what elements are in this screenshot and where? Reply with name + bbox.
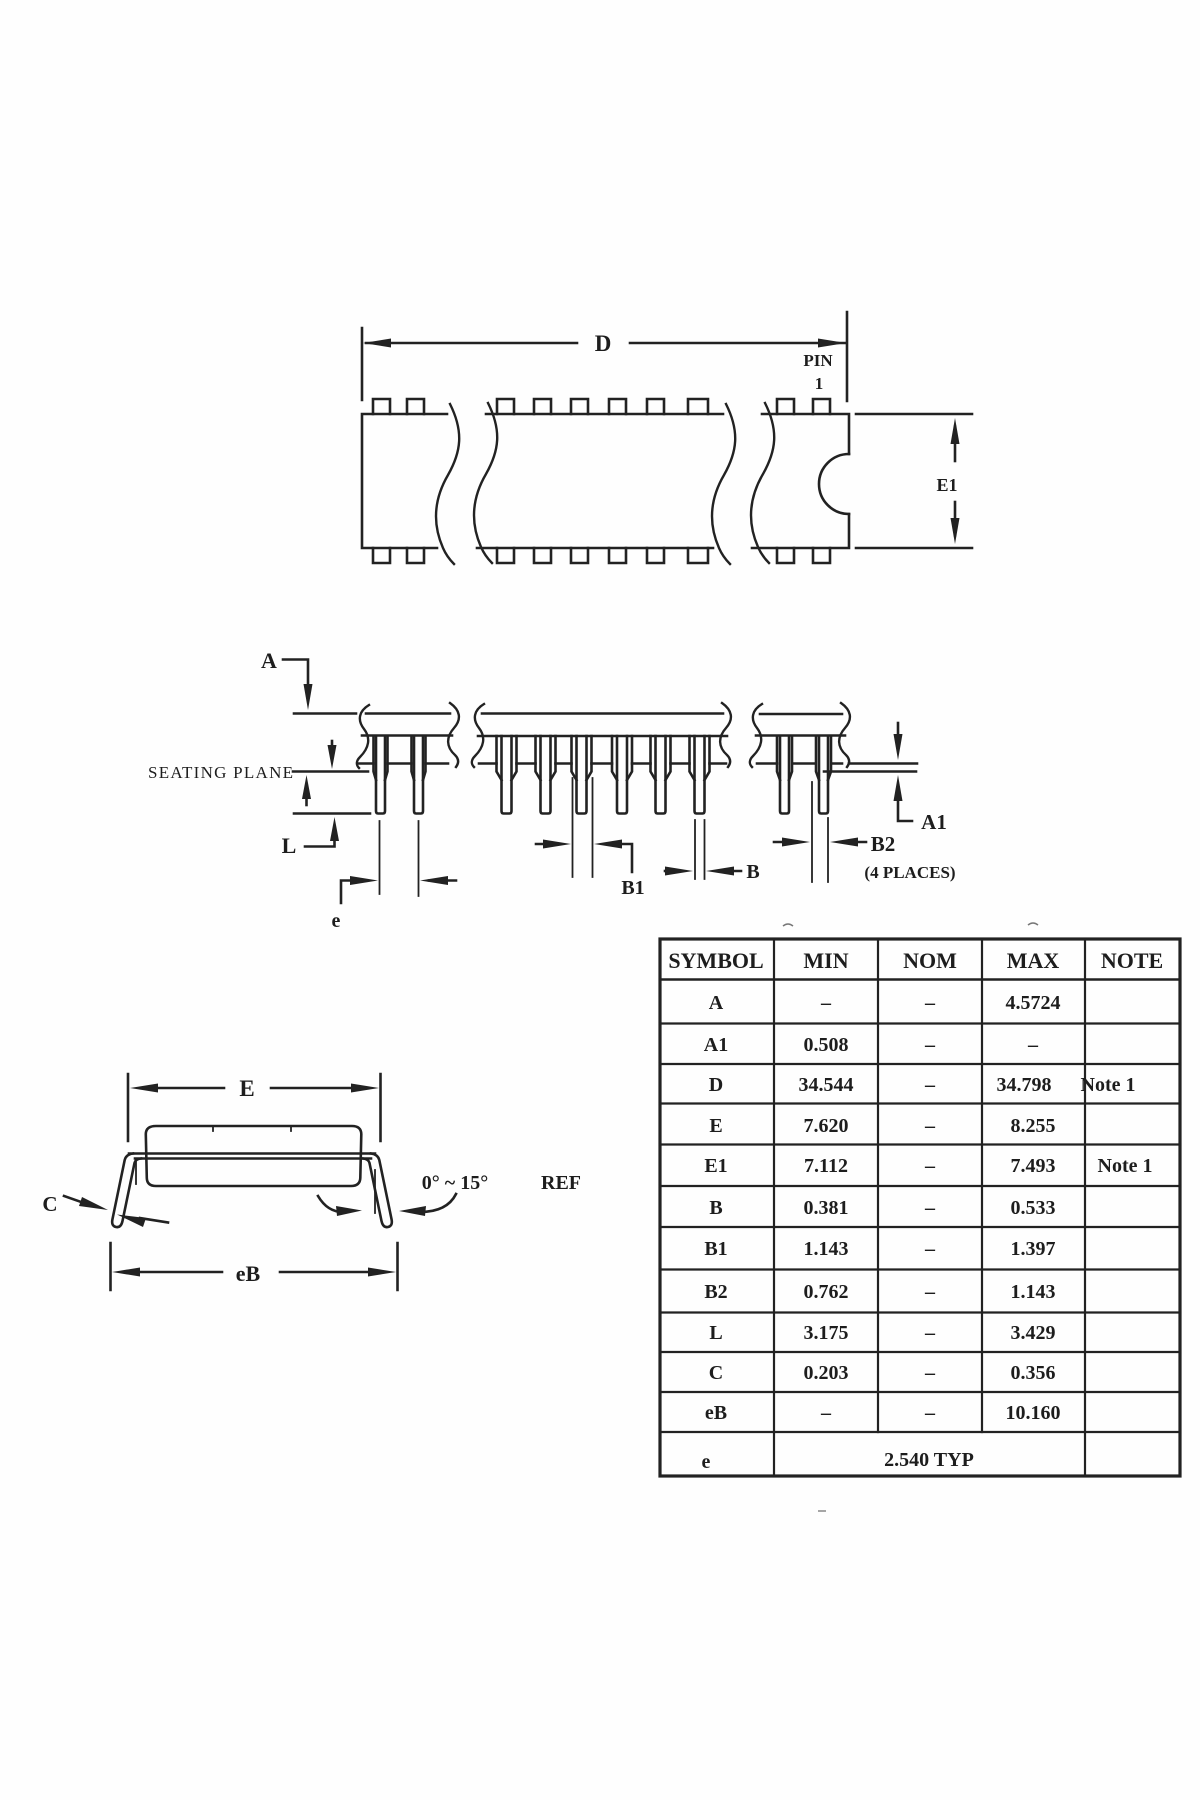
table row B [709, 1197, 1055, 1219]
table row E [709, 1115, 1055, 1137]
svg-text:B: B [746, 861, 759, 883]
svg-text:0.508: 0.508 [804, 1034, 849, 1056]
svg-text:–: – [924, 1074, 936, 1096]
table row A1 [704, 1034, 1039, 1056]
svg-text:1: 1 [815, 374, 824, 393]
end view right lead vertical reference [374, 1170, 376, 1213]
seating plane down arrow [328, 741, 337, 769]
table row D [709, 1074, 1136, 1096]
table row e [702, 1449, 974, 1473]
svg-text:E1: E1 [936, 475, 957, 495]
stray scan marks above table [783, 923, 1038, 926]
svg-text:–: – [924, 1034, 936, 1056]
top view lower pin stubs [373, 548, 830, 563]
table outer border [660, 939, 1180, 1476]
svg-text:0.381: 0.381 [804, 1197, 849, 1219]
svg-text:–: – [924, 1402, 936, 1424]
dimension D extension lines [362, 312, 847, 401]
svg-text:eB: eB [236, 1261, 261, 1286]
side view left segment body [357, 703, 459, 768]
svg-text:–: – [924, 1155, 936, 1177]
seating plane up arrow [302, 775, 311, 805]
table column lines [774, 939, 1085, 1476]
svg-text:–: – [924, 1362, 936, 1384]
end view left lead vertical reference [135, 1160, 137, 1184]
svg-text:B2: B2 [704, 1281, 727, 1303]
table row B2 [704, 1281, 1055, 1303]
table row C [709, 1362, 1056, 1384]
svg-text:0.203: 0.203 [804, 1362, 849, 1384]
table row B1 [704, 1238, 1055, 1260]
svg-text:7.112: 7.112 [804, 1155, 848, 1177]
svg-text:NOM: NOM [903, 948, 957, 973]
table row L [709, 1322, 1055, 1344]
svg-text:Note 1: Note 1 [1081, 1074, 1136, 1096]
top view package body outline [362, 414, 849, 548]
svg-text:1.143: 1.143 [804, 1238, 849, 1260]
svg-text:34.798: 34.798 [997, 1074, 1052, 1096]
svg-text:34.544: 34.544 [799, 1074, 854, 1096]
svg-text:L: L [709, 1322, 722, 1344]
svg-text:B2: B2 [871, 832, 896, 856]
svg-text:–: – [924, 992, 936, 1014]
svg-text:D: D [709, 1074, 723, 1096]
dimension B1 arrows and leader [536, 840, 632, 873]
svg-text:eB: eB [705, 1402, 727, 1424]
table row E1 [704, 1155, 1152, 1177]
dimension E1 extension lines [856, 414, 972, 548]
pin 1 index notch [819, 454, 849, 514]
svg-text:(4 PLACES): (4 PLACES) [864, 863, 955, 882]
dimension E extension lines [128, 1074, 381, 1141]
dimension D line with arrows [363, 339, 846, 348]
dimension E line with arrows [130, 1084, 379, 1093]
svg-text:e: e [332, 910, 341, 932]
svg-text:–: – [924, 1115, 936, 1137]
dimension E1 arrows [951, 418, 960, 544]
svg-text:MIN: MIN [803, 948, 848, 973]
side view middle segment pins 1-6 [497, 736, 710, 814]
svg-text:0.356: 0.356 [1011, 1362, 1056, 1384]
svg-text:0.533: 0.533 [1011, 1197, 1056, 1219]
seating plane line [293, 770, 368, 773]
top view break lines (left pair) [436, 403, 497, 564]
svg-text:e: e [702, 1451, 711, 1473]
end view top tick marks [213, 1126, 291, 1131]
svg-text:8.255: 8.255 [1011, 1115, 1056, 1137]
dimension L leader and arrow [305, 817, 339, 847]
table row A [709, 992, 1061, 1014]
svg-text:B1: B1 [621, 877, 644, 899]
table header row [668, 948, 1163, 973]
svg-text:A1: A1 [704, 1034, 728, 1056]
lead angle curved arrow (inner) [318, 1196, 362, 1216]
dimension C leader and arrows [64, 1196, 168, 1227]
svg-text:C: C [709, 1362, 723, 1384]
svg-text:3.429: 3.429 [1011, 1322, 1056, 1344]
side view right segment pin 2 [819, 736, 828, 814]
dimension e leader and arrows [341, 876, 456, 903]
svg-text:REF: REF [541, 1172, 581, 1194]
side view right segment pin 1 [780, 736, 789, 814]
svg-text:E1: E1 [704, 1155, 727, 1177]
dimension A leader and arrow [283, 660, 313, 711]
svg-text:–: – [924, 1322, 936, 1344]
lead angle curved arrow (outer) [399, 1194, 456, 1216]
table row lines [660, 978, 1180, 981]
svg-text:10.160: 10.160 [1006, 1402, 1061, 1424]
dimension eB extension lines [111, 1243, 398, 1290]
svg-text:–: – [820, 1402, 832, 1424]
svg-text:PIN: PIN [803, 351, 833, 370]
dimension B arrows [665, 867, 741, 876]
svg-text:SYMBOL: SYMBOL [668, 948, 763, 973]
pin tip line [294, 812, 370, 815]
side view left segment pin 1 [376, 736, 385, 814]
svg-text:NOTE: NOTE [1101, 948, 1163, 973]
svg-text:D: D [595, 331, 612, 356]
A1 seating plane lines [824, 764, 917, 772]
pin pitch reference lines (e) [380, 821, 419, 896]
side view right segment body [750, 703, 850, 767]
svg-text:C: C [42, 1192, 57, 1216]
svg-text:1.143: 1.143 [1011, 1281, 1056, 1303]
svg-text:0.762: 0.762 [804, 1281, 849, 1303]
side view left segment pin 2 [414, 736, 423, 814]
end view right lead [363, 1154, 392, 1228]
svg-text:E: E [709, 1115, 722, 1137]
end view parting lines [129, 1154, 375, 1159]
svg-text:MAX: MAX [1007, 948, 1060, 973]
svg-text:–: – [924, 1238, 936, 1260]
dimension A1 arrows and leader [894, 723, 913, 821]
svg-text:E: E [239, 1076, 254, 1101]
dimension eB line with arrows [112, 1268, 396, 1277]
svg-text:2.540 TYP: 2.540 TYP [884, 1449, 974, 1471]
B reference lines [695, 820, 705, 879]
svg-text:3.175: 3.175 [804, 1322, 849, 1344]
svg-text:4.5724: 4.5724 [1006, 992, 1061, 1014]
svg-text:A: A [261, 648, 277, 673]
svg-text:–: – [1027, 1034, 1039, 1056]
table row eB [705, 1402, 1061, 1424]
svg-text:SEATING PLANE: SEATING PLANE [148, 763, 293, 782]
svg-text:L: L [282, 833, 297, 858]
end view package body [146, 1126, 361, 1186]
seating plane upper extension line [294, 712, 356, 715]
svg-text:B: B [709, 1197, 722, 1219]
svg-text:0° ~ 15°: 0° ~ 15° [422, 1172, 488, 1194]
B2 reference lines [812, 782, 828, 882]
stray scan mark below table [818, 1510, 826, 1512]
svg-text:A1: A1 [921, 810, 947, 834]
dimension B2 arrows [774, 838, 866, 847]
svg-text:–: – [820, 992, 832, 1014]
top view break lines (right pair) [712, 403, 774, 564]
svg-text:–: – [924, 1197, 936, 1219]
end view left lead [112, 1154, 141, 1228]
top view upper pin stubs [373, 399, 830, 414]
svg-text:–: – [924, 1281, 936, 1303]
B1 reference lines [573, 778, 593, 877]
svg-text:B1: B1 [704, 1238, 727, 1260]
svg-text:7.620: 7.620 [804, 1115, 849, 1137]
svg-text:1.397: 1.397 [1011, 1238, 1056, 1260]
svg-text:7.493: 7.493 [1011, 1155, 1056, 1177]
svg-text:A: A [709, 992, 724, 1014]
side view middle segment body [472, 703, 731, 767]
svg-text:Note 1: Note 1 [1098, 1155, 1153, 1177]
